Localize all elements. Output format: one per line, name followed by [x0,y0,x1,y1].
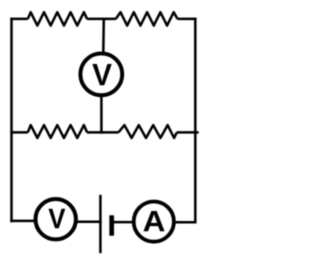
voltmeter V1 [80,53,122,95]
wire stem from V1 to middle row [100,96,103,134]
label V of voltmeter V2 [48,209,65,228]
wire top center [87,18,116,21]
label A of ammeter A1 [144,211,165,231]
wire right rail [194,18,197,224]
wire middle-left lead [10,131,28,134]
wire battery to ammeter [112,221,133,224]
resistor R3 [28,125,87,138]
battery B1 short plate [109,215,114,235]
wire middle center [87,131,119,134]
wire top-right lead [177,18,196,21]
resistor R4 [119,125,177,138]
wire bottom-left [10,220,34,223]
wire middle-right lead [177,131,199,134]
ammeter A1 [134,202,174,242]
wire stem to voltmeter V1 [102,18,105,54]
voltmeter V2 [36,199,76,239]
wire ammeter to right rail [175,221,196,224]
label V of voltmeter V1 [92,64,111,85]
wire top-left lead [10,18,28,21]
wire V2 to battery [77,221,102,224]
resistor R1 [28,12,87,25]
battery B1 long plate [99,195,102,253]
wire left rail [10,18,13,223]
resistor R2 [116,12,178,25]
